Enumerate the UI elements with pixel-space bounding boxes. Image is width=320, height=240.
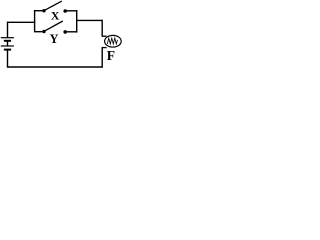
wire: bottom horizontal bbox=[7, 66, 103, 68]
meter F body (ellipse) bbox=[105, 35, 122, 47]
switch X blade bbox=[44, 1, 62, 10]
switch X contact dot bbox=[63, 9, 67, 13]
meter internal marks bbox=[107, 38, 117, 44]
battery cell 1 short plate (-) bbox=[4, 40, 11, 42]
battery cell 2 long plate (+) bbox=[1, 45, 14, 47]
wire: left horizontal to battery bbox=[8, 21, 36, 23]
switch X pivot dot bbox=[42, 9, 45, 12]
wire: Y-branch right stub bbox=[67, 31, 78, 33]
wire: right lower vertical bbox=[101, 48, 103, 68]
switch Y pivot dot bbox=[42, 30, 45, 33]
svg-text:Y: Y bbox=[50, 32, 59, 46]
wire: X-branch left stub bbox=[35, 10, 43, 12]
wire: battery bottom lead bbox=[7, 50, 9, 67]
wire: between cells bbox=[7, 41, 9, 46]
wire: battery top lead bbox=[7, 22, 9, 38]
wire: meter top-left stub bbox=[102, 35, 107, 37]
wire: right junction vertical bbox=[76, 10, 78, 32]
switch Y contact dot bbox=[63, 30, 67, 34]
wire: meter bottom-left stub bbox=[102, 47, 107, 49]
svg-text:F: F bbox=[107, 48, 115, 63]
background bbox=[0, 0, 125, 72]
switch Y blade bbox=[44, 21, 63, 31]
wire: Y-branch left stub bbox=[35, 31, 43, 33]
wire: right upper vertical bbox=[101, 20, 103, 37]
svg-text:X: X bbox=[51, 9, 60, 23]
wire: X-branch right stub bbox=[67, 10, 78, 12]
wire: left junction vertical bbox=[34, 10, 36, 32]
battery cell 2 short plate (-) bbox=[4, 49, 11, 51]
wire: right horizontal from junction bbox=[77, 19, 103, 21]
battery cell 1 long plate (+) bbox=[1, 37, 14, 39]
